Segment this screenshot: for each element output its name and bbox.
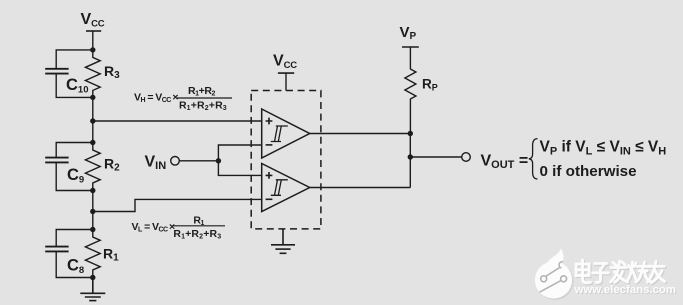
op-amp U2 (lower comparator)	[262, 164, 310, 212]
label R2	[104, 156, 120, 174]
U2 + input mark	[266, 172, 273, 179]
U1 - input mark	[266, 144, 273, 146]
capacitor C9	[45, 143, 93, 191]
label C10	[66, 76, 89, 96]
wire VCC bar to package	[285, 73, 287, 90]
power VCC (left) bar symbol	[86, 30, 101, 32]
svg-text:R1+R2: R1+R2	[188, 85, 216, 98]
U2 hysteresis symbol	[271, 180, 288, 196]
node VIN junction	[216, 158, 221, 163]
wire VOUT node to terminal	[410, 156, 461, 158]
wire U1 output to VP node	[310, 133, 411, 135]
node: top of R3/C10	[90, 47, 95, 52]
terminal VIN	[171, 157, 180, 166]
logo disc	[535, 261, 572, 298]
logo trace upper	[546, 268, 560, 277]
logo flame notch curl	[559, 262, 563, 268]
node VH tap	[90, 118, 95, 123]
svg-text:R1+R2+R3: R1+R2+R3	[173, 228, 221, 241]
terminal VOUT	[462, 153, 471, 162]
label R3	[104, 63, 120, 81]
logo shadow	[536, 263, 573, 300]
node: top of R1/C8	[90, 227, 95, 232]
label C8	[67, 256, 84, 276]
svg-text:VP if VL ≤ VIN ≤ VH: VP if VL ≤ VIN ≤ VH	[540, 139, 667, 158]
dashed comparator package box	[251, 91, 321, 229]
label RP	[422, 77, 438, 93]
svg-text:www.elecfans.com: www.elecfans.com	[574, 284, 677, 296]
logo pad right	[561, 276, 567, 282]
wire R3 bottom to R2 top	[92, 97, 94, 142]
U1 hysteresis symbol	[271, 126, 288, 142]
wire U2 output	[310, 187, 411, 189]
ground (package)	[271, 229, 295, 253]
node U1 output / RP	[408, 131, 413, 136]
power VP label	[400, 24, 417, 42]
power VP bar symbol	[402, 46, 419, 48]
capacitor C10	[45, 50, 93, 98]
power VCC (package) bar symbol	[278, 72, 294, 74]
node: bottom of R3	[90, 95, 95, 100]
label VIN	[145, 153, 167, 172]
wire VL node to comparator U2 - input	[93, 199, 262, 211]
svg-text:0 if otherwise: 0 if otherwise	[540, 163, 637, 180]
power VCC (left) label	[81, 11, 105, 29]
node VOUT tap	[408, 154, 413, 159]
text VP if VL <= VIN <= VH	[540, 139, 667, 181]
op-amp U1 (upper comparator)	[262, 109, 310, 158]
label VOUT =	[481, 153, 529, 172]
label R1	[103, 245, 119, 263]
U2 - input mark	[266, 198, 273, 200]
logo pad left	[541, 276, 547, 282]
fraction bar VL	[174, 225, 226, 227]
watermark CJK shadow	[577, 261, 666, 284]
fraction bar VH	[177, 97, 232, 99]
formula VL = VCC x R1/(R1+R2+R3)	[132, 215, 222, 241]
logo trace lower	[540, 281, 561, 293]
logo flame	[545, 248, 564, 271]
wire VIN to comparator U2 + input	[218, 161, 261, 176]
wire VH node to comparator U1 + input	[93, 120, 262, 122]
wire R2 bottom to R1 top	[92, 191, 94, 230]
label C9	[67, 166, 84, 186]
ground (left, bottom of divider)	[80, 278, 105, 301]
wire VIN to junction	[179, 160, 218, 162]
power VCC (package) label	[273, 53, 297, 71]
wire joining outputs (wired-AND)	[409, 134, 411, 188]
node: top of R2/C9	[90, 140, 95, 145]
watermark CJK white	[576, 260, 665, 283]
resistor R2	[85, 143, 100, 191]
wire VIN to comparator U1 - input	[218, 145, 261, 161]
svg-text:R1+R2+R3: R1+R2+R3	[179, 100, 227, 113]
node VL tap	[90, 209, 95, 214]
node: bottom of R2	[90, 188, 95, 193]
wire VCC bar to node	[92, 31, 94, 50]
U1 + input mark	[266, 118, 273, 125]
resistor RP	[405, 47, 416, 134]
formula VH = VCC x (R1+R2)/(R1+R2+R3)	[134, 85, 227, 112]
node: bottom of R1	[90, 275, 95, 280]
brace of VOUT definition	[529, 139, 538, 179]
resistor R3	[85, 50, 100, 98]
watermark logo elecfans	[535, 248, 574, 300]
capacitor C8	[45, 230, 93, 278]
resistor R1	[85, 230, 100, 278]
